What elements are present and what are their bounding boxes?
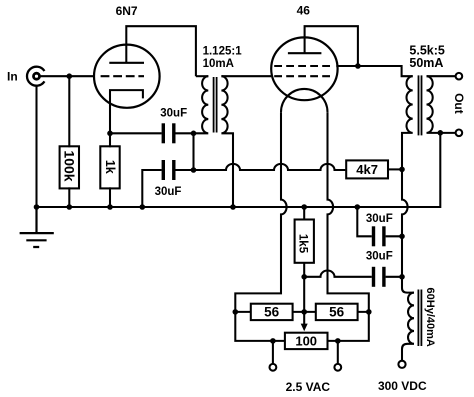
svg-text:300 VDC: 300 VDC bbox=[378, 379, 427, 393]
svg-text:100k: 100k bbox=[62, 150, 78, 181]
svg-text:30uF: 30uF bbox=[155, 186, 182, 198]
svg-text:1k: 1k bbox=[103, 160, 117, 174]
svg-text:50mA: 50mA bbox=[409, 56, 443, 70]
svg-text:30uF: 30uF bbox=[366, 251, 393, 263]
svg-text:60Hy/40mA: 60Hy/40mA bbox=[424, 288, 436, 347]
svg-text:100: 100 bbox=[295, 334, 317, 349]
svg-text:1.125:1: 1.125:1 bbox=[203, 45, 243, 57]
svg-text:56: 56 bbox=[264, 305, 280, 320]
svg-text:1k5: 1k5 bbox=[296, 234, 308, 254]
svg-text:30uF: 30uF bbox=[160, 108, 187, 120]
svg-text:4k7: 4k7 bbox=[356, 162, 378, 177]
svg-text:2.5 VAC: 2.5 VAC bbox=[286, 380, 331, 394]
svg-text:Out: Out bbox=[452, 93, 466, 114]
svg-text:10mA: 10mA bbox=[203, 58, 234, 70]
svg-text:6N7: 6N7 bbox=[116, 4, 138, 18]
svg-text:30uF: 30uF bbox=[366, 213, 393, 225]
svg-text:56: 56 bbox=[329, 305, 345, 320]
svg-text:46: 46 bbox=[297, 4, 311, 18]
svg-text:In: In bbox=[7, 70, 18, 84]
